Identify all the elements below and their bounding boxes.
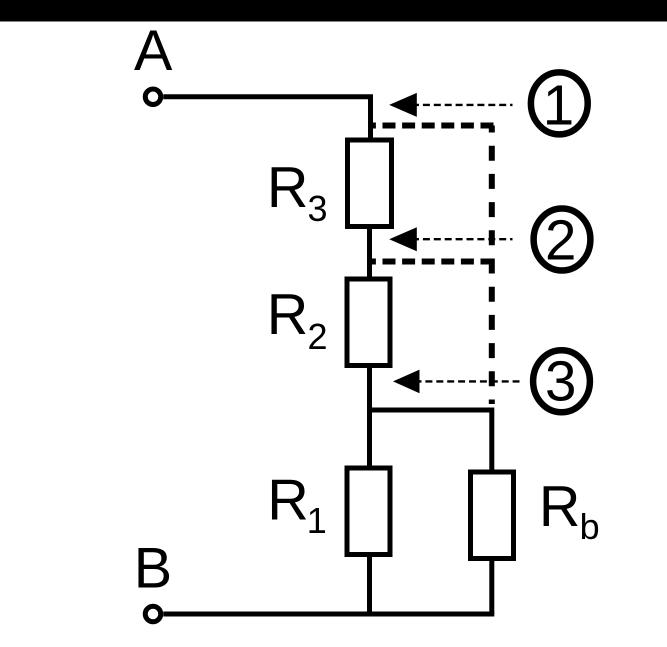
- svg-text:2: 2: [545, 209, 576, 272]
- label Rb: [539, 475, 600, 547]
- arrow to node 3: [393, 370, 520, 394]
- node 2 circled label: [534, 209, 591, 272]
- svg-text:R: R: [267, 283, 309, 347]
- resistor R2: [347, 279, 390, 366]
- svg-text:b: b: [580, 506, 600, 547]
- wire: terminal A to R3 top: [163, 97, 370, 141]
- node 1 circled label: [531, 72, 588, 136]
- svg-text:A: A: [134, 19, 173, 83]
- terminal A: [145, 89, 161, 105]
- dashed branch line at node 2: [371, 259, 490, 265]
- top black border bar: [0, 0, 667, 22]
- arrow to node 1: [389, 93, 512, 117]
- wire: junction to Rb top: [370, 410, 492, 474]
- wire: terminal B to bottom junction: [163, 612, 494, 617]
- node 3 circled label: [533, 349, 590, 412]
- dashed loop: right vertical side: [489, 126, 495, 405]
- svg-text:R: R: [267, 469, 309, 533]
- svg-text:3: 3: [545, 349, 576, 412]
- arrow to node 2: [389, 227, 512, 251]
- wire: R1 bottom to node B rail: [367, 554, 372, 617]
- svg-text:3: 3: [308, 188, 328, 229]
- wire: R2 through junction to R1: [367, 365, 372, 470]
- dashed loop: node 1 to node 3 via right side: [371, 123, 495, 129]
- resistor Rb: [471, 472, 514, 559]
- svg-text:B: B: [134, 537, 172, 601]
- svg-text:2: 2: [308, 316, 328, 357]
- svg-text:R: R: [539, 475, 581, 539]
- svg-text:R: R: [267, 156, 309, 220]
- wire: Rb bottom to node B rail: [489, 558, 494, 614]
- label R2: [267, 283, 328, 357]
- svg-text:1: 1: [307, 500, 327, 541]
- resistor R3: [348, 140, 392, 227]
- label R3: [267, 156, 328, 229]
- label R1: [267, 469, 327, 541]
- resistor R1: [347, 468, 390, 555]
- svg-text:1: 1: [543, 74, 574, 137]
- wire: R3 to R2: [367, 226, 372, 280]
- terminal B: [145, 606, 161, 622]
